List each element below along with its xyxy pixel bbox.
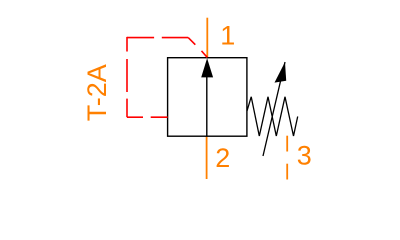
- adjustment arrowhead: [275, 62, 287, 83]
- pilot line left vertical (red dashed): [126, 37, 128, 117]
- flow arrow shaft: [206, 62, 208, 136]
- svg-text:1: 1: [220, 21, 235, 51]
- pilot line top horizontal (red dashed): [127, 37, 188, 39]
- port 3 dashed line (orange): [286, 136, 288, 180]
- svg-text:3: 3: [297, 140, 312, 170]
- svg-text:T-2A: T-2A: [82, 64, 112, 121]
- flow arrowhead: [201, 58, 213, 77]
- spring: [247, 97, 298, 136]
- port 1 line (orange): [206, 18, 208, 58]
- adjustment arrow shaft: [263, 62, 285, 156]
- valve envelope box: [168, 58, 247, 137]
- pilot line diagonal (red dashed): [188, 38, 207, 58]
- pilot line bottom horizontal (red dashed): [127, 116, 168, 118]
- svg-text:2: 2: [215, 143, 230, 173]
- port 2 line (orange): [206, 136, 208, 179]
